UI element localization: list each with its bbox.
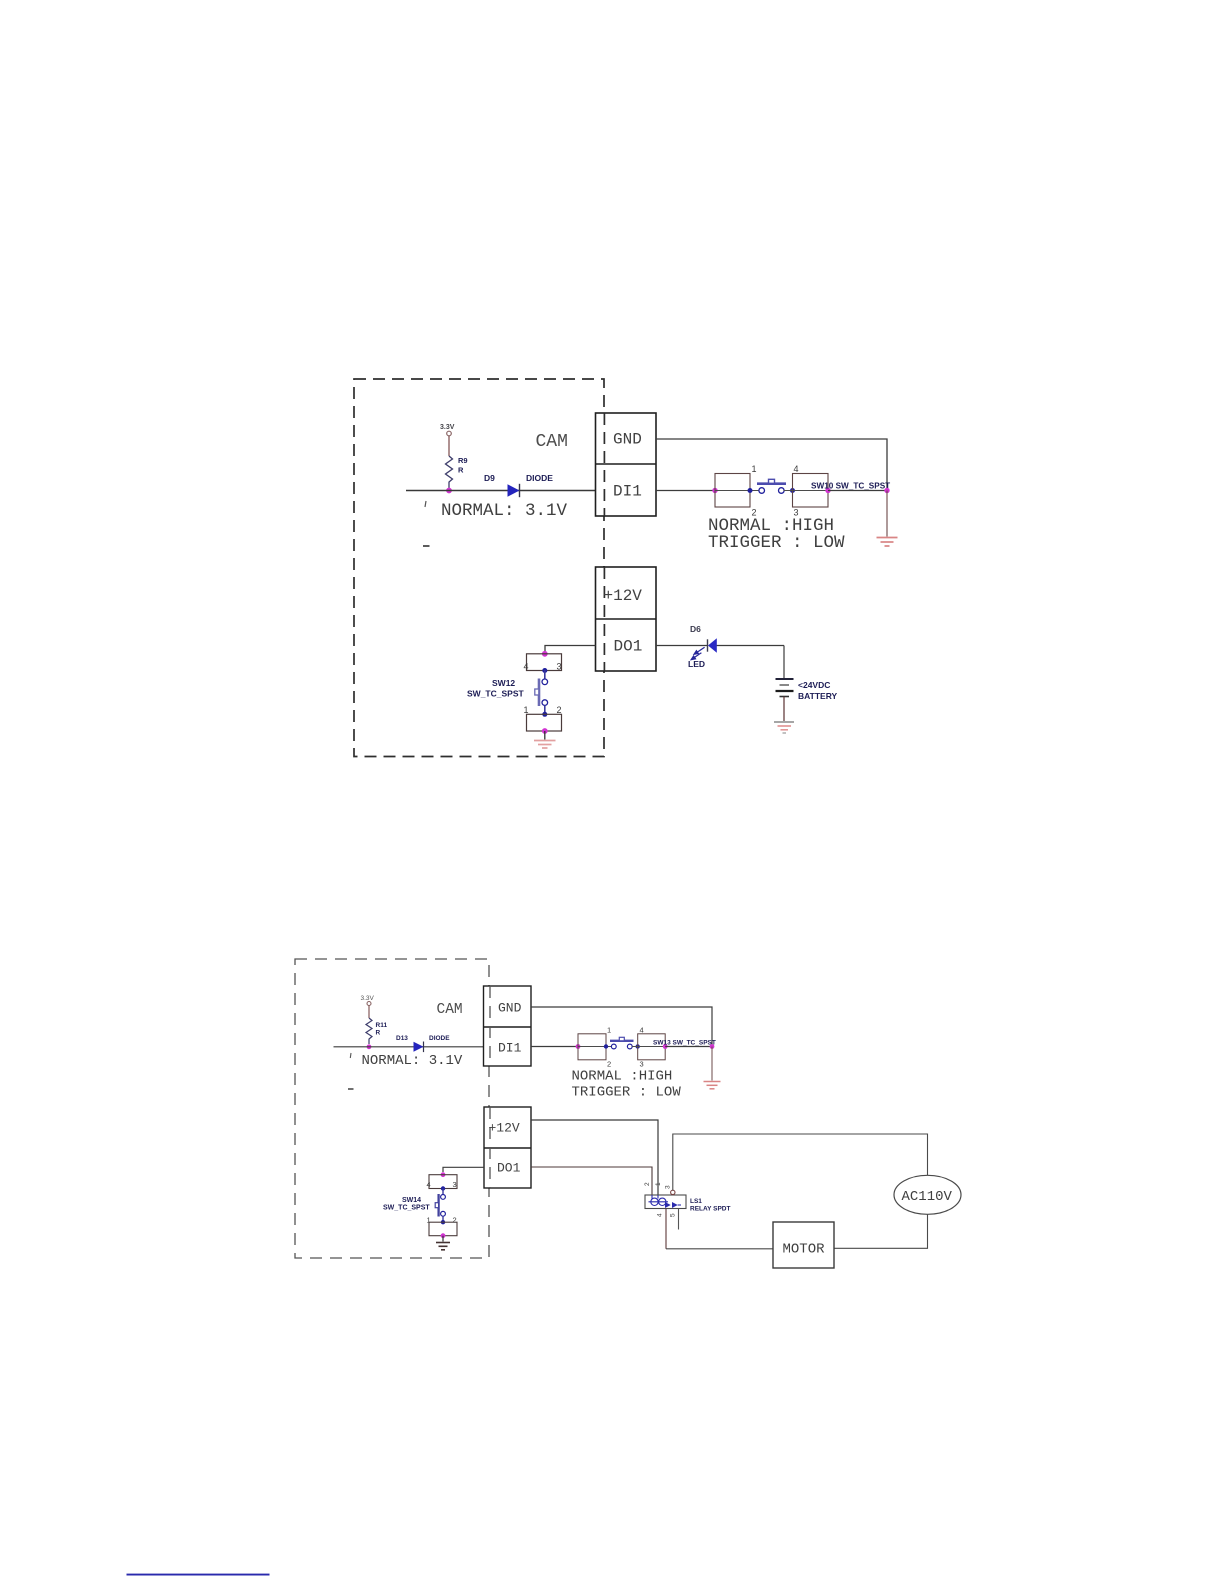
AC source AC110V ellipse (894, 1175, 961, 1214)
svg-text:SW10 SW_TC_SPST: SW10 SW_TC_SPST (811, 482, 890, 491)
svg-text:4: 4 (427, 1180, 431, 1189)
dashed boundary segment over connector (top) (603, 413, 605, 516)
svg-text:D6: D6 (690, 624, 701, 634)
switch SW13 right section (638, 1034, 666, 1060)
switch SW14 bottom section (429, 1222, 457, 1236)
svg-text:3.3V: 3.3V (361, 995, 375, 1002)
svg-text:4: 4 (657, 1213, 664, 1217)
relay pin 5 stub (678, 1209, 680, 1230)
svg-text:3.3V: 3.3V (440, 424, 455, 431)
svg-text:SW12: SW12 (492, 678, 515, 688)
svg-text:R: R (376, 1030, 381, 1037)
relay LS1 contacts (665, 1202, 678, 1208)
pushbutton SW10 contact dots (748, 488, 753, 493)
connector box +12V/DO1 (top) (596, 567, 657, 671)
wire DO1 to SW14 (443, 1167, 484, 1172)
pushbutton SW13 actuator bar (610, 1040, 634, 1042)
connector box +12V/DO1 (bottom) (484, 1107, 531, 1188)
relay LS1 coil (649, 1195, 669, 1206)
diode D13 (414, 1042, 424, 1052)
earth ground SW12 (534, 741, 556, 749)
svg-text:NORMAL: 3.1V: NORMAL: 3.1V (441, 501, 568, 521)
svg-text:DI1: DI1 (498, 1041, 522, 1056)
wire +12V to relay coil pin1 (531, 1120, 658, 1195)
LED arrows (691, 647, 704, 659)
svg-text:R11: R11 (376, 1022, 388, 1029)
svg-text:D13: D13 (396, 1035, 408, 1042)
power terminal circle 3.3V (bottom) (367, 1002, 371, 1006)
wire GND to pulldown net (top) (656, 439, 887, 491)
svg-text:SW13 SW_TC_SPST: SW13 SW_TC_SPST (653, 1040, 716, 1047)
svg-text:SW_TC_SPST: SW_TC_SPST (467, 689, 524, 699)
svg-text:DO1: DO1 (614, 638, 643, 656)
svg-text:4: 4 (640, 1026, 644, 1035)
pushbutton SW12 (542, 668, 547, 673)
SW10 internal wire right (784, 490, 829, 492)
svg-text:3: 3 (557, 662, 562, 672)
junction dot SW14 top (441, 1172, 446, 1177)
wire DO1 to LED (656, 645, 707, 647)
wire relay to motor (666, 1248, 773, 1250)
wire DI1 input (left segment) (406, 490, 596, 492)
junction dot DI1/SW13 (576, 1044, 581, 1049)
svg-text:1: 1 (655, 1182, 662, 1186)
svg-text:2: 2 (607, 1060, 611, 1069)
svg-text:DI1: DI1 (613, 483, 642, 501)
earth ground SW13 (704, 1082, 721, 1089)
svg-text:NORMAL: 3.1V: NORMAL: 3.1V (362, 1053, 463, 1069)
wire 3.3V to R11 (368, 1006, 370, 1019)
wire AC110V to motor (834, 1214, 928, 1248)
SW13 internal wire left (578, 1046, 612, 1048)
wire to earth ground (bottom DI) (711, 1047, 713, 1081)
wire DI1 to SW13 (531, 1046, 578, 1048)
svg-text:LED: LED (688, 659, 705, 669)
switch SW12 bottom section (527, 714, 562, 731)
svg-text:1: 1 (427, 1216, 431, 1225)
wire SW12 to ground (544, 731, 546, 740)
diode D9 (508, 484, 520, 497)
switch SW10 left section (715, 474, 750, 508)
motor box (773, 1222, 834, 1268)
wire 3.3V to R9 (448, 436, 450, 456)
wire SW10 to ground net (828, 490, 887, 492)
svg-text:1: 1 (524, 705, 529, 715)
pushbutton SW14 (441, 1186, 445, 1190)
switch SW12 top section (527, 654, 562, 671)
svg-text:CAM: CAM (437, 1002, 463, 1018)
resistor R9 (446, 456, 453, 488)
svg-text:CAM: CAM (536, 432, 568, 452)
svg-text:BATTERY: BATTERY (798, 691, 838, 701)
svg-text:GND: GND (498, 1001, 522, 1016)
svg-text:R: R (458, 466, 464, 475)
svg-text:R9: R9 (458, 456, 468, 465)
SW10 internal wire left (715, 490, 759, 492)
svg-text:SW14: SW14 (402, 1197, 421, 1204)
svg-text:+12V: +12V (489, 1121, 520, 1136)
svg-text:D9: D9 (484, 473, 495, 483)
junction dot DI1/SW10 (712, 488, 717, 493)
LED D6 (707, 639, 709, 651)
pushbutton SW13 contact dots (604, 1044, 608, 1048)
pushbutton SW10 actuator bar (757, 482, 786, 485)
junction dot R9/DI1 wire (446, 488, 452, 494)
junction dot SW14 bottom (441, 1233, 446, 1238)
switch SW14 top section (429, 1175, 457, 1189)
switch SW13 left section (578, 1034, 606, 1060)
svg-text:4: 4 (794, 464, 799, 474)
wire DO1 to SW12 (545, 646, 596, 652)
relay pin 4 wire (665, 1209, 667, 1249)
earth ground SW10 (877, 538, 898, 547)
SW13 internal wire right (632, 1046, 665, 1048)
svg-text:DIODE: DIODE (526, 473, 553, 483)
power terminal circle 3.3V (top) (447, 431, 452, 436)
svg-text:TRIGGER : LOW: TRIGGER : LOW (572, 1085, 682, 1101)
svg-text:2: 2 (557, 705, 562, 715)
svg-text:AC110V: AC110V (902, 1189, 953, 1205)
svg-text:4: 4 (524, 662, 529, 672)
svg-text:MOTOR: MOTOR (783, 1242, 826, 1258)
junction dot SW12 bottom (542, 728, 548, 734)
connector box GND/DI1 (top) (596, 413, 657, 516)
svg-text:1: 1 (752, 464, 757, 474)
relay pin 3 circle (671, 1190, 675, 1194)
battery <24VDC (776, 679, 794, 697)
svg-text:<24VDC: <24VDC (798, 680, 830, 690)
dashed boundary segment over connector DO1 (bottom) (489, 1107, 491, 1188)
tick mark (bottom) (349, 1053, 352, 1058)
junction dot SW10 right (825, 488, 830, 493)
junction dot SW12 top (542, 651, 548, 657)
svg-text:RELAY SPDT: RELAY SPDT (690, 1206, 730, 1213)
wire SW13 to ground net (bottom) (665, 1046, 712, 1048)
footer link underline (127, 1574, 270, 1576)
dash mark (423, 545, 430, 547)
svg-text:DO1: DO1 (497, 1161, 521, 1176)
svg-text:DIODE: DIODE (429, 1035, 450, 1042)
relay LS1 box (645, 1195, 686, 1209)
resistor R11 (366, 1018, 372, 1044)
tick mark (425, 501, 426, 507)
connector box GND/DI1 (bottom) (484, 986, 532, 1066)
camera dashed boundary box (bottom schematic) (295, 959, 489, 1258)
svg-text:1: 1 (607, 1026, 611, 1035)
wire DI1 to SW10 (656, 490, 715, 492)
svg-text:2: 2 (453, 1216, 457, 1225)
switch SW10 right section (793, 474, 829, 508)
wire battery to ground (783, 697, 785, 722)
earth ground SW14 (dark) (436, 1243, 450, 1250)
svg-text:+12V: +12V (604, 587, 643, 605)
junction dot SW13 right (663, 1044, 668, 1049)
svg-text:GND: GND (613, 431, 642, 449)
dashed boundary segment over connector (bottom) (489, 986, 491, 1066)
svg-text:SW_TC_SPST: SW_TC_SPST (383, 1205, 430, 1212)
svg-text:2: 2 (644, 1182, 651, 1186)
svg-text:LS1: LS1 (690, 1198, 702, 1205)
svg-text:3: 3 (640, 1060, 644, 1069)
wire relay pin3 to AC110V loop (673, 1134, 928, 1190)
junction dot ground net (884, 488, 889, 493)
svg-text:5: 5 (670, 1213, 677, 1217)
svg-text:NORMAL :HIGH: NORMAL :HIGH (572, 1069, 673, 1085)
wire to earth ground (top right) (886, 491, 888, 537)
junction dot ground net (bottom) (710, 1044, 715, 1049)
earth ground battery (774, 722, 794, 733)
svg-text:3: 3 (665, 1185, 672, 1189)
dashed boundary segment over connector DO1 (top) (603, 567, 605, 671)
dash mark (bottom) (348, 1088, 354, 1090)
wire DI1 input (bottom) (334, 1046, 484, 1048)
junction dot R11/DI1 wire (bottom) (367, 1044, 372, 1049)
svg-text:3: 3 (453, 1180, 457, 1189)
wire SW14 to ground (442, 1236, 444, 1242)
svg-text:TRIGGER : LOW: TRIGGER : LOW (708, 533, 845, 553)
camera dashed boundary box (top schematic) (354, 379, 604, 757)
wire GND to pulldown net (bottom) (531, 1007, 712, 1047)
wire DO1 to relay coil pin2 (531, 1167, 652, 1195)
